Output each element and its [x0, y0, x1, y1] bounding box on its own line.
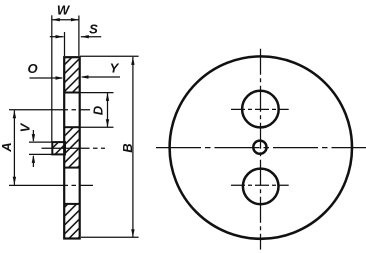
bottom hole upper edge: [64, 167, 80, 169]
top hole lower edge: [64, 126, 80, 128]
top hole center line: [231, 108, 289, 110]
W extension line right: [78, 16, 80, 57]
W arrow left: [52, 18, 60, 21]
hatched section: plate top segment: [65, 57, 79, 92]
center line top hole (section): [9, 109, 90, 111]
svg-text:A: A: [0, 142, 14, 152]
B extension line top: [80, 55, 139, 57]
D extension line top: [80, 92, 114, 94]
hatched section: plate bottom segment: [65, 204, 79, 239]
V extension line bottom: [29, 153, 52, 155]
A arrow up: [13, 110, 16, 118]
B dimension line: [132, 57, 134, 237]
D extension line bottom: [80, 126, 114, 128]
O leader arrow: [30, 77, 63, 79]
horizontal center line: [156, 147, 366, 149]
hub (boss) hatched: [52, 142, 65, 154]
top bolt hole: [242, 91, 279, 128]
V top arrow (outside, pointing down): [32, 130, 34, 141]
W dimension line: [52, 19, 79, 21]
bottom hole lower edge: [64, 203, 80, 205]
center line main axis (section): [42, 147, 106, 149]
vertical center line: [260, 49, 262, 250]
svg-text:B: B: [120, 143, 135, 152]
center hole: [253, 141, 266, 154]
plate outline: [64, 57, 80, 238]
A dimension line: [13, 110, 15, 185]
W extension line left: [51, 15, 53, 142]
W arrow right: [71, 18, 79, 21]
Y leader arrow: [82, 76, 120, 78]
S dimension left arrow (outside): [50, 36, 64, 38]
svg-text:V: V: [18, 122, 33, 132]
D arrow up: [106, 93, 109, 101]
svg-text:Y: Y: [110, 61, 120, 76]
hatched section: plate middle segment: [65, 127, 79, 167]
svg-text:W: W: [57, 3, 71, 18]
svg-text:O: O: [27, 61, 37, 76]
D arrow down: [106, 119, 109, 127]
svg-text:S: S: [89, 21, 98, 36]
top hole upper edge: [64, 92, 80, 94]
B extension line bottom: [81, 236, 139, 238]
V bottom arrow (outside, pointing up): [32, 156, 34, 167]
S dimension right arrow (outside): [81, 36, 101, 38]
svg-text:D: D: [91, 105, 106, 115]
B arrow up: [131, 57, 134, 65]
D dimension line: [107, 93, 109, 127]
B arrow down: [131, 229, 134, 237]
center line bottom hole (section): [9, 184, 93, 186]
S extension line left: [64, 32, 66, 56]
A arrow down: [13, 177, 16, 185]
bottom hole center line: [231, 184, 289, 186]
disc outline: [170, 56, 352, 238]
V extension line top: [29, 141, 52, 143]
bottom bolt hole: [243, 169, 279, 205]
